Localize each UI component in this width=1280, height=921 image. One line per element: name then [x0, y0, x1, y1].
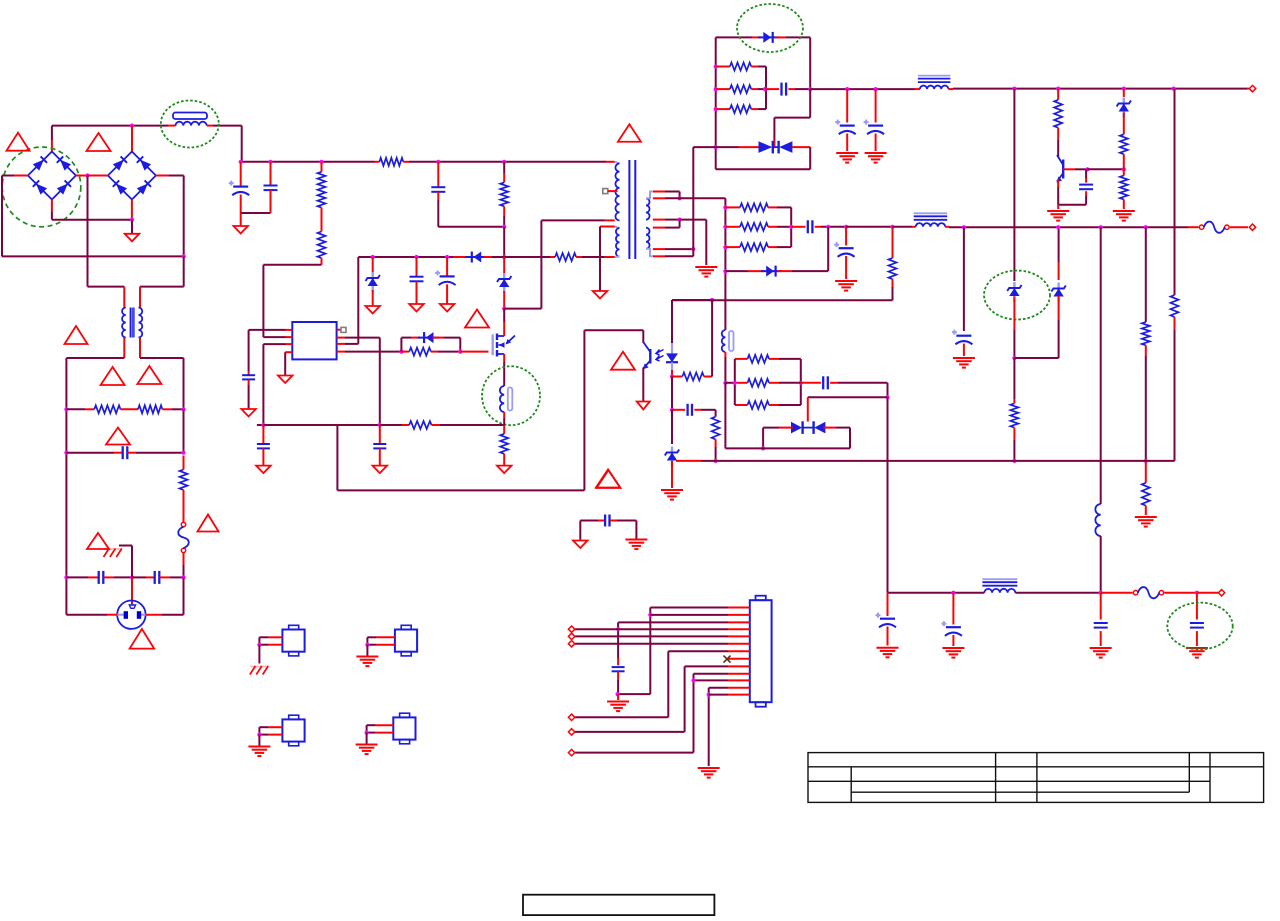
wire Y-center up	[131, 546, 133, 578]
wire sec D up	[692, 249, 694, 256]
ground (open) bridge minus	[125, 234, 140, 242]
terminal rail4	[1218, 590, 1224, 596]
junction right loop	[182, 254, 186, 258]
junction C26 gnd	[616, 692, 620, 696]
wire choke to corner	[213, 125, 242, 127]
pin stub aux top	[600, 226, 615, 228]
wire rail3 stub	[676, 460, 701, 462]
wire MH1 pin b	[259, 644, 268, 646]
pin stub R21 right	[768, 206, 777, 208]
pin 13 stub CN1	[728, 694, 750, 696]
wire R13 top v	[715, 410, 717, 417]
pin stub R26 bottom	[1145, 506, 1147, 515]
resistor R11 sense	[500, 434, 508, 454]
pin stub C25 top	[1196, 593, 1198, 620]
wire drain up	[503, 309, 505, 322]
pin stub CX left	[114, 452, 123, 454]
pin stub primary bottom	[605, 219, 615, 221]
junction out1 C16	[874, 87, 878, 91]
terminal CN1-10	[568, 749, 574, 755]
connector J1 AC plug	[117, 601, 146, 629]
wire ZD4 top	[1058, 227, 1060, 262]
wire x1014 v d	[1013, 440, 1015, 461]
wire MH3 pin a	[259, 726, 268, 728]
wire R8 to aux pin	[582, 256, 605, 258]
wire MH2 pin a	[367, 636, 376, 638]
pin stub C5 bottom	[240, 195, 242, 214]
wire CY1 to center	[114, 576, 132, 578]
pin 5 stub CN1	[728, 635, 750, 637]
junction sec AB	[678, 196, 682, 200]
wire chain to IC	[263, 264, 321, 266]
junction blk3 right r2	[799, 381, 803, 385]
connector MH2 body	[395, 625, 417, 656]
ground (open) C8	[409, 304, 424, 312]
capacitor C6	[264, 186, 278, 191]
wire pin7 right	[345, 337, 380, 339]
zener ZD4	[1051, 283, 1065, 303]
pin stub sec C	[653, 248, 665, 250]
wire TVS2 bottom loop	[725, 447, 850, 449]
wire center tap right	[680, 219, 707, 221]
pin stub choke L1 right	[207, 125, 213, 127]
wire pin1 left	[249, 329, 286, 331]
pin stub L2 left	[915, 88, 920, 90]
fuse F2	[1199, 222, 1229, 233]
wire sec C	[665, 248, 693, 250]
wire choke to right rail	[140, 357, 184, 359]
diode TVS pair D6	[759, 141, 793, 154]
junction drain loop	[502, 307, 506, 311]
junction VCC C9	[445, 255, 449, 259]
pin 3 stub U1	[286, 343, 293, 345]
wire C17 bottom v	[1085, 196, 1087, 205]
inductor T2 right winding	[139, 308, 143, 338]
capacitor C16	[864, 120, 885, 135]
wire pin10 down	[693, 674, 695, 753]
wire to ground	[131, 220, 133, 234]
warning triangle 14	[597, 470, 621, 488]
inductor L6	[982, 579, 1017, 593]
resistor R24	[889, 258, 897, 279]
junction sec CD	[691, 247, 695, 251]
pin stub R27 bottom	[1174, 317, 1176, 330]
wire out2 join v r1	[777, 206, 791, 208]
wire right input vertical b	[183, 409, 185, 452]
pin stub R3 right	[162, 408, 172, 410]
resistor R15	[730, 85, 751, 93]
junction sense C12	[378, 423, 382, 427]
warning triangle 8	[87, 533, 109, 549]
wire center tap down	[705, 220, 707, 265]
wire MH4 pin b	[367, 732, 376, 734]
diode D5 (circled)	[758, 32, 779, 43]
wire gate stub	[460, 351, 488, 353]
pin stub R26 top	[1145, 461, 1147, 483]
wire left loop vertical	[1, 176, 3, 257]
wire pin3 down	[262, 344, 264, 425]
wire out1 right v a	[809, 37, 811, 89]
diode D7	[761, 266, 782, 277]
ground (open) ZD1	[365, 306, 380, 314]
wire sec M2 up	[679, 220, 681, 228]
pin stub BD2 left	[88, 175, 108, 177]
junction blk3 left r2	[733, 381, 737, 385]
wire drain loop v	[540, 220, 542, 308]
wire pin1 down	[649, 608, 651, 695]
wire BD2 right to corner	[168, 175, 183, 177]
pin stub R6 bottom	[321, 258, 323, 265]
wire blk3 r1 right	[779, 358, 801, 360]
ground (open) aux	[593, 291, 608, 299]
junction blk3 r2 left	[723, 381, 727, 385]
warning triangle 7	[198, 515, 219, 532]
T1 sec1 hook	[646, 192, 653, 199]
wire TVS row left	[716, 146, 739, 148]
junction HV rail C6	[268, 160, 272, 164]
wire pin9 down	[684, 666, 686, 732]
resistor R9	[409, 348, 431, 356]
ground (earth) CN1	[698, 768, 720, 778]
wire CY3 right h	[617, 520, 636, 522]
wire out2 return	[672, 299, 893, 301]
capacitor C7	[431, 187, 445, 192]
junction out1 R block r2	[714, 87, 718, 91]
highlight circle around C25	[1167, 603, 1232, 650]
wire out1 bottom	[716, 168, 811, 170]
capacitor C13	[688, 404, 692, 416]
wire x1146 v a	[1145, 227, 1147, 322]
wire corner down to HV rail	[241, 126, 243, 162]
pin stub choke T2 bottom-right	[139, 338, 141, 359]
wire emitter corner	[1058, 204, 1086, 206]
bridge rectifier BD2	[108, 152, 156, 200]
wire to R2 stub	[66, 408, 85, 410]
pin stub choke L1 left	[168, 125, 176, 127]
pin stub C14 left	[765, 88, 779, 90]
pin stub C21 right	[830, 382, 838, 384]
pin stub plug left	[107, 614, 117, 616]
wire pin5	[575, 635, 728, 637]
capacitor C26	[612, 667, 625, 671]
wire x1174 v a	[1174, 89, 1176, 295]
junction sense C11	[261, 423, 265, 427]
wire snub diode row a	[401, 337, 411, 339]
wire to CY1	[66, 576, 88, 578]
pin 6 stub U1	[337, 343, 345, 345]
pin stub BD1 bottom	[51, 200, 53, 213]
junction snubber node	[502, 225, 506, 229]
pin stub C24 bottom	[1100, 631, 1102, 646]
wire C21 right	[838, 382, 888, 384]
wire source down	[503, 362, 505, 386]
pin stub R9 right	[431, 351, 438, 353]
resistor R27	[1171, 295, 1179, 317]
pin 10 stub CN1	[728, 673, 750, 675]
junction zener join	[1012, 356, 1016, 360]
pin stub sec B	[653, 197, 665, 199]
terminal CN1-6	[568, 641, 574, 647]
pin stub TL431 bottom	[671, 461, 673, 488]
wire out1 right v b	[809, 147, 811, 169]
wire out1 node down	[809, 89, 811, 118]
wire C5/C6 join	[241, 212, 271, 214]
wire rail4 b	[1015, 592, 1100, 594]
wire snub diode right v	[459, 338, 461, 352]
capacitor C24	[1094, 623, 1108, 628]
resistor R7	[500, 182, 508, 206]
pin stub D5 anode	[752, 36, 761, 38]
ground (open) CY3 left	[573, 541, 588, 549]
junction rail4 x1101	[1099, 591, 1103, 595]
wire LED top up	[671, 300, 673, 343]
pin stub Q1 drain	[503, 322, 505, 336]
pin stub D3 right.. left	[453, 256, 467, 258]
wire F1 to Y-cap row	[183, 565, 185, 577]
pin stub plug right	[146, 614, 162, 616]
wire sec CD to out1	[692, 147, 694, 249]
junction out1 R block r1	[714, 64, 718, 68]
wire emitter down	[1057, 187, 1059, 205]
ground (earth) C23	[942, 648, 964, 658]
junction fb bottom rail R13	[714, 459, 718, 463]
pin stub C23 top	[952, 593, 954, 625]
resistor R13	[712, 417, 720, 440]
pin stub R17 top	[1013, 399, 1015, 403]
transformer T1 primary hook top	[615, 162, 620, 164]
wire MH1 pin a	[259, 636, 268, 638]
zener ZD2	[497, 273, 511, 293]
resistor R21	[740, 203, 768, 211]
opto U2 LED	[666, 343, 678, 370]
wire VCC rail	[365, 256, 453, 258]
pin stub Q1 source	[503, 354, 505, 362]
pin stub TVS2 center	[807, 397, 809, 421]
ground (open) C10	[241, 409, 256, 417]
op-amp U1 PWM controller	[292, 322, 336, 359]
pin stub CY2 right	[159, 576, 170, 578]
pin stub TVS1 left	[739, 146, 759, 148]
wire LED to fb rail	[672, 299, 712, 301]
ground (open) opto E	[637, 402, 650, 410]
pin stub C15 top	[846, 89, 848, 122]
junction rail2 x1146	[1144, 225, 1148, 229]
pin stub C6 top	[270, 162, 272, 186]
pin stub F3 left	[1101, 592, 1133, 594]
ground (earth) R20	[1113, 211, 1135, 221]
pin stub ZD5 bottom	[1123, 113, 1125, 135]
junction base C17	[1085, 167, 1089, 171]
wire C26 down	[617, 680, 619, 694]
wire sec A down	[679, 192, 681, 199]
wire pin3	[618, 621, 728, 623]
pin stub R4 right	[403, 161, 409, 163]
wire pin9	[685, 665, 728, 667]
transformer T1 aux winding	[616, 228, 620, 257]
wire C7 to drain node	[438, 226, 504, 228]
pin stub L3 left	[912, 226, 916, 228]
wire pin10	[694, 673, 729, 675]
pin stub F3 right	[1164, 592, 1197, 594]
warning triangle 9 below plug	[130, 629, 155, 649]
wire fb top	[584, 329, 643, 331]
pin stub R14 right	[751, 66, 758, 68]
zener ZD1	[366, 272, 380, 292]
resistor R23	[740, 243, 768, 251]
pin stub C16 top	[875, 89, 877, 122]
junction rail2 x1058	[1056, 225, 1060, 229]
wire right loop to step	[183, 256, 185, 286]
junction AC rail / bridge BD2	[130, 124, 134, 128]
wire pin2	[650, 614, 728, 616]
junction TVS top	[885, 395, 889, 399]
wire TVS top h	[808, 396, 888, 398]
pin stub C12 bottom	[379, 448, 381, 465]
resistor R28	[748, 355, 770, 363]
pin 7 stub CN1	[728, 650, 750, 652]
wire pin6	[575, 643, 728, 645]
junction pin13	[707, 693, 711, 697]
junction out1 node	[808, 87, 812, 91]
diode D4	[418, 332, 439, 343]
wire out1 rail a	[810, 88, 914, 90]
junction rail2 x1101	[1099, 225, 1103, 229]
junction out2 r2	[723, 225, 727, 229]
wire TVS col down	[887, 397, 889, 593]
wire pin4 down	[284, 352, 286, 375]
connector CN1 body	[750, 596, 772, 707]
wire sec A	[665, 191, 680, 193]
wire D7 row left	[725, 270, 748, 272]
resistor R20	[1120, 176, 1128, 200]
wire ZD4 down	[1058, 320, 1060, 358]
wire BD1 left to edge	[2, 175, 14, 177]
wire BD1 bottom down	[51, 212, 53, 220]
ground (earth) TL431	[661, 490, 683, 500]
wire R16 to join v	[758, 108, 766, 110]
resistor R10	[409, 421, 431, 429]
pin stub aux bottom	[605, 256, 615, 258]
wire MH1 join	[258, 637, 260, 644]
capacitor C8	[410, 277, 424, 282]
transformer T1 aux hook	[615, 227, 620, 229]
wire C7 down	[437, 200, 439, 227]
wire to gnd	[240, 213, 242, 226]
pin stub R23 left	[725, 246, 740, 248]
pin stub BD2 right	[156, 175, 169, 177]
pin stub CY1 right	[103, 576, 114, 578]
pin stub C9 bottom	[446, 284, 448, 304]
wire fb corner v	[336, 425, 338, 490]
pin stub ZD2 top	[503, 257, 505, 273]
wire right loop vertical upper	[183, 176, 185, 257]
pin stub R7 bottom	[503, 206, 505, 216]
wire HV rail	[242, 161, 375, 163]
wire rail3	[701, 460, 1175, 462]
ground (open) C12	[373, 466, 388, 474]
pin stub C21 left	[801, 382, 821, 384]
highlight circle around L1	[161, 101, 219, 148]
resistor R6	[318, 232, 326, 259]
pin stub C22 top	[887, 593, 889, 616]
pin stub C18 right	[815, 226, 821, 228]
connector MH1 body	[282, 625, 304, 656]
pin stub C15 bottom	[846, 134, 848, 152]
capacitor C25 (circled)	[1190, 623, 1204, 628]
wire LED col down	[671, 377, 673, 410]
pin stub C12 top	[379, 425, 381, 444]
pin stub TVS center	[773, 140, 775, 147]
transformer T1 primary winding	[615, 164, 619, 221]
wire R3 to right rail	[172, 408, 184, 410]
pin stub Q2 emitter	[1057, 180, 1059, 188]
warning triangle 2	[87, 133, 111, 151]
pin stub F2 left	[1188, 226, 1199, 228]
pin stub Q2 base	[1063, 168, 1075, 170]
wire drain loop h	[504, 308, 541, 310]
pin stub D4 cathode	[411, 337, 420, 339]
pin stub C25 bottom	[1196, 631, 1198, 646]
wire node between bridges down	[87, 176, 89, 287]
resistor R16	[730, 105, 751, 113]
wire pin7 down	[667, 651, 669, 717]
wire AC top rail	[52, 125, 168, 127]
pin stub R16 right	[751, 108, 758, 110]
junction R22 C18	[789, 225, 793, 229]
wire C13 to R13	[701, 409, 716, 411]
pin stub D7 anode	[748, 270, 764, 272]
pin stub R21 left	[725, 206, 740, 208]
resistor RT1 (NTC)	[180, 470, 188, 491]
pin stub LED bottom	[671, 370, 673, 377]
ground (earth) MH4	[356, 745, 378, 755]
ground (earth) C24	[1090, 648, 1112, 658]
wire plug row right	[162, 614, 184, 616]
ground (earth) emitter	[1047, 211, 1069, 221]
wire CY3 left v	[579, 521, 581, 540]
inductor L1 winding	[176, 122, 207, 126]
wire MH3 pin b stub	[268, 734, 282, 736]
pin stub R24 bottom	[892, 279, 894, 287]
wire R13 to rail	[715, 447, 717, 461]
junction left rail R row	[64, 407, 68, 411]
wire pin1 gnd h	[618, 693, 651, 695]
wire bridge BD2 top stub	[131, 126, 133, 153]
warning triangle 1	[7, 133, 30, 151]
wire sec M2	[665, 227, 680, 229]
wire out2col v c	[724, 357, 726, 383]
pin stub BD1 left	[14, 175, 28, 177]
pin stub C5 top	[240, 162, 242, 186]
wire zener join h	[1014, 357, 1058, 359]
ground (open) C9	[440, 304, 455, 312]
junction rail x1174	[1172, 87, 1176, 91]
transformer T1 core	[629, 160, 635, 259]
wire MH3 pin a stub	[268, 726, 282, 728]
pin 6 stub CN1	[728, 643, 750, 645]
pin stub sec A	[653, 191, 665, 193]
wire MH2 gnd	[366, 645, 368, 657]
capacitor C15	[835, 120, 856, 135]
capacitor C9	[435, 270, 456, 285]
ground (earth) C25	[1186, 648, 1208, 658]
resistor R4	[379, 158, 403, 166]
wire C21 corner v	[887, 383, 889, 397]
wire R24 down	[892, 287, 894, 300]
wire TVS2 right	[836, 427, 850, 429]
capacitor C22	[876, 613, 897, 628]
wire C18 to rail	[821, 226, 846, 228]
